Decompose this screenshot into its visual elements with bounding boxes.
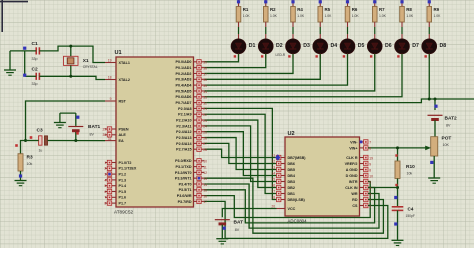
- pin number labels: [103, 59, 374, 209]
- svg-text:WR: WR: [351, 192, 357, 196]
- svg-text:D GND: D GND: [346, 174, 358, 178]
- U1 pin 22 P2.1/A9: [178, 112, 204, 117]
- U1 pin 16 P3.6/WR: [177, 193, 205, 198]
- node RST junction: [24, 139, 27, 142]
- node crystal top junction: [69, 45, 72, 48]
- node POT bottom marker: [430, 161, 433, 164]
- diode D2 (LED): [258, 39, 285, 57]
- svg-text:P0.2/AD2: P0.2/AD2: [176, 72, 192, 76]
- U2 pin 2 RD: [352, 197, 368, 202]
- resistor R1: [236, 0, 250, 22]
- svg-text:1.0K: 1.0K: [324, 14, 332, 18]
- svg-text:1u: 1u: [39, 149, 43, 153]
- svg-text:DB0(LSB): DB0(LSB): [288, 198, 306, 202]
- svg-text:DB3: DB3: [288, 180, 295, 184]
- svg-text:8V: 8V: [446, 124, 451, 128]
- svg-text:30: 30: [103, 133, 107, 137]
- node rail junctions: [428, 98, 431, 101]
- svg-text:P1.3: P1.3: [119, 178, 127, 182]
- U2 pin 18 DB0(LSB): [277, 197, 306, 202]
- svg-text:17: 17: [203, 200, 207, 204]
- svg-text:13: 13: [203, 177, 207, 181]
- svg-text:R6: R6: [352, 7, 358, 12]
- node R10/C4 junction: [396, 186, 399, 189]
- svg-text:INTR: INTR: [349, 180, 358, 184]
- node P1.2 pin marker: [108, 173, 111, 176]
- svg-text:10k: 10k: [27, 162, 33, 166]
- wire C1 left to ground: [10, 50, 36, 52]
- U2 pin 3 WR: [351, 191, 368, 196]
- wire C4 to ground: [397, 210, 399, 240]
- wire POT to ground: [433, 156, 435, 178]
- svg-text:VCC: VCC: [288, 207, 296, 211]
- wire junction to CLK IN: [368, 187, 398, 189]
- U2 pin 15 DB3: [277, 179, 295, 184]
- node crystal bottom junction: [69, 75, 72, 78]
- svg-text:1.0K: 1.0K: [297, 14, 305, 18]
- svg-text:10: 10: [369, 174, 373, 178]
- U2 pin 5 INTR: [349, 179, 368, 184]
- svg-text:C1: C1: [32, 41, 38, 47]
- resistor R3: [18, 154, 33, 171]
- resistor R10: [395, 161, 415, 179]
- svg-text:13: 13: [271, 166, 275, 170]
- svg-text:16: 16: [271, 184, 275, 188]
- svg-text:1: 1: [369, 204, 371, 208]
- svg-text:9: 9: [369, 162, 371, 166]
- svg-text:37: 37: [203, 72, 207, 76]
- node D5 cathode marker: [347, 54, 349, 59]
- svg-text:10: 10: [203, 160, 207, 164]
- svg-text:P3.4/T0: P3.4/T0: [179, 182, 192, 186]
- svg-text:3: 3: [369, 192, 371, 196]
- capacitor C1: [32, 41, 40, 61]
- svg-text:A GND: A GND: [346, 168, 358, 172]
- svg-text:DB5: DB5: [288, 168, 295, 172]
- ground (BAT): [216, 238, 228, 240]
- svg-text:P2.6/A14: P2.6/A14: [176, 142, 192, 146]
- node VIN- pin marker: [360, 141, 363, 144]
- U1 pin 23 P2.2/A10: [176, 118, 204, 123]
- diode D7 (LED): [395, 39, 419, 54]
- U1 pin 13 P3.3/INT1: [175, 176, 205, 181]
- diode D3 (LED): [286, 39, 310, 54]
- svg-text:P3.6/WR: P3.6/WR: [177, 194, 192, 198]
- U1 pin 32 P0.7/AD7: [176, 100, 205, 105]
- node D8 cathode marker: [428, 54, 430, 59]
- svg-text:17: 17: [271, 190, 275, 194]
- U1 pin 21 P2.0/A8: [178, 106, 204, 111]
- svg-text:P0.3/AD3: P0.3/AD3: [176, 78, 192, 82]
- svg-text:8V: 8V: [90, 133, 95, 137]
- svg-text:C2: C2: [32, 67, 38, 73]
- wire C1 to XTAL1: [39, 46, 105, 62]
- svg-text:VREF/2: VREF/2: [345, 162, 358, 166]
- wire P0.0 to D1: [205, 54, 239, 62]
- U1 pin 2 P1.1/T2EX: [105, 166, 137, 171]
- svg-text:19: 19: [369, 156, 373, 160]
- svg-text:P1.5: P1.5: [119, 190, 127, 194]
- svg-text:16: 16: [203, 194, 207, 198]
- wire P3.3 to RD: [205, 178, 384, 233]
- svg-text:4: 4: [369, 186, 371, 190]
- svg-text:C4: C4: [408, 206, 414, 211]
- svg-text:R10: R10: [406, 164, 415, 170]
- svg-text:P0.4/AD4: P0.4/AD4: [176, 84, 193, 88]
- svg-text:10k: 10k: [407, 172, 413, 176]
- wire P2.2 to DB2: [205, 120, 277, 187]
- sheet border corner: [1, 0, 3, 32]
- U2 pin 20 VCC: [277, 207, 296, 211]
- svg-text:DB7(MSB): DB7(MSB): [288, 156, 307, 160]
- svg-text:1: 1: [104, 161, 106, 165]
- svg-text:R2: R2: [270, 7, 276, 12]
- resistor R4: [291, 0, 305, 22]
- node C1/C2 junction markers: [23, 47, 26, 50]
- svg-text:18: 18: [108, 76, 112, 80]
- battery BAT: [215, 220, 243, 239]
- U1 pin 11 P3.1/TXD: [176, 164, 205, 169]
- svg-text:38: 38: [203, 66, 207, 70]
- wire P0.4 to D5: [205, 54, 348, 85]
- svg-text:22: 22: [203, 113, 207, 117]
- svg-text:D2: D2: [276, 43, 283, 49]
- wire junction to R3: [21, 141, 26, 154]
- U1 pin 5 P1.4: [105, 184, 127, 189]
- U1 pin 36 P0.3/AD3: [176, 77, 205, 82]
- svg-text:BAT1: BAT1: [88, 124, 101, 130]
- diode D6 (LED): [367, 39, 391, 54]
- U2 pin 8 A GND: [346, 167, 368, 172]
- U2 pin 6 VIN+: [349, 146, 368, 151]
- svg-text:P2.1/A9: P2.1/A9: [178, 113, 191, 117]
- wire rail to BAT2: [434, 99, 436, 110]
- svg-text:32: 32: [203, 101, 207, 105]
- crystal X1: [64, 56, 98, 69]
- svg-text:P3.0/RXD: P3.0/RXD: [175, 159, 192, 163]
- capacitor C4: [392, 206, 415, 218]
- resistor R6: [345, 0, 359, 22]
- svg-text:P3.2/INT0: P3.2/INT0: [175, 171, 192, 175]
- node R10 bottom marker: [395, 184, 397, 186]
- U2 pin 11 DB7(MSB): [277, 155, 307, 160]
- svg-text:5: 5: [369, 180, 371, 184]
- svg-text:R4: R4: [297, 7, 303, 12]
- svg-text:P2.7/A15: P2.7/A15: [176, 148, 191, 152]
- svg-text:19: 19: [108, 59, 112, 63]
- svg-text:6: 6: [369, 147, 371, 151]
- svg-text:R8: R8: [406, 7, 412, 12]
- U1 pin 28 P2.7/A15: [176, 147, 204, 152]
- U2 pin 14 DB4: [277, 173, 296, 178]
- U1 pin 25 P2.4/A12: [176, 130, 204, 135]
- ground (POT): [428, 177, 440, 179]
- svg-text:11: 11: [203, 165, 207, 169]
- resistor R5: [318, 0, 332, 22]
- U1 pin 26 P2.5/A13: [176, 135, 204, 140]
- node D1 cathode marker: [238, 54, 240, 59]
- U1 pin 33 P0.6/AD6: [176, 95, 205, 100]
- U1 pin 35 P0.4/AD4: [176, 83, 205, 88]
- svg-text:PSEN: PSEN: [119, 127, 129, 131]
- node D3 cathode marker: [292, 54, 294, 59]
- wire C2 left vertical: [25, 51, 37, 76]
- svg-text:8: 8: [369, 168, 371, 172]
- wire VIN+ to POT wiper: [368, 147, 426, 149]
- svg-text:12: 12: [203, 171, 207, 175]
- U1 pin 7 P1.6: [105, 195, 126, 200]
- svg-text:27: 27: [203, 142, 207, 146]
- wire R6 to D5: [347, 22, 349, 27]
- node D6 cathode marker: [374, 54, 376, 59]
- capacitor C3: [37, 128, 48, 153]
- ground (R3): [15, 180, 27, 182]
- svg-text:8: 8: [104, 202, 106, 206]
- op-amp U1: [116, 57, 194, 207]
- svg-text:33p: 33p: [32, 57, 38, 61]
- ground (BAT1): [54, 113, 66, 128]
- svg-text:P0.6/AD6: P0.6/AD6: [176, 95, 192, 99]
- svg-text:15: 15: [203, 189, 207, 193]
- U1 pin 3 P1.2: [105, 172, 126, 177]
- wire R4 to D3: [292, 22, 294, 27]
- node DB7 pin marker: [275, 154, 280, 160]
- svg-text:6: 6: [104, 190, 106, 194]
- svg-text:P0.5/AD5: P0.5/AD5: [176, 89, 192, 93]
- svg-text:P0.7/AD7: P0.7/AD7: [176, 101, 192, 105]
- svg-text:14: 14: [271, 172, 275, 176]
- ground (crystal): [4, 51, 16, 75]
- U1 pin 18 XTAL2: [105, 78, 130, 82]
- wire P3.6 to INTR: [205, 182, 371, 218]
- diode D8 (LED): [422, 39, 446, 54]
- svg-text:P3.1/TXD: P3.1/TXD: [176, 165, 192, 169]
- diode D4 (LED): [313, 39, 337, 54]
- svg-text:D4: D4: [331, 43, 338, 49]
- svg-text:29: 29: [103, 127, 107, 131]
- wire P2.4 to DB4: [205, 132, 277, 176]
- svg-text:7: 7: [104, 196, 106, 200]
- U1 pin 8 P1.7: [105, 201, 126, 206]
- wire P2.3 to DB3: [205, 126, 277, 182]
- svg-text:R9: R9: [433, 7, 439, 12]
- svg-text:1.0K: 1.0K: [379, 14, 387, 18]
- svg-text:33: 33: [203, 96, 207, 100]
- svg-text:31: 31: [108, 137, 112, 141]
- svg-text:P1.2: P1.2: [119, 173, 127, 177]
- svg-text:12: 12: [271, 160, 275, 164]
- svg-text:14: 14: [203, 183, 207, 187]
- wire P0.1 to D2: [205, 54, 266, 68]
- resistor R2: [263, 0, 277, 22]
- wire P0.6 to D7: [205, 54, 403, 97]
- wire C3 row: [26, 140, 39, 142]
- wire BAT1 to ground: [60, 112, 76, 114]
- node C4 top marker: [394, 196, 397, 199]
- svg-text:P2.4/A12: P2.4/A12: [176, 130, 191, 134]
- node R3 bottom marker: [19, 174, 22, 177]
- svg-text:P1.7: P1.7: [119, 202, 127, 206]
- svg-text:VIN+: VIN+: [349, 146, 357, 150]
- svg-text:36: 36: [203, 78, 207, 82]
- wire P0.5 to D6: [205, 54, 375, 91]
- node D7 cathode marker: [401, 54, 403, 59]
- svg-text:28: 28: [203, 148, 207, 152]
- svg-text:20: 20: [271, 205, 275, 209]
- svg-text:EA: EA: [119, 139, 124, 143]
- svg-text:2: 2: [369, 198, 371, 202]
- svg-text:C3: C3: [37, 128, 43, 134]
- svg-text:RST: RST: [119, 99, 127, 103]
- svg-text:1.0K: 1.0K: [352, 14, 360, 18]
- svg-text:11: 11: [272, 154, 276, 158]
- wire R8 to D7: [401, 22, 403, 27]
- node BAT1 top marker: [76, 116, 79, 119]
- U1 pin 14 P3.4/T0: [179, 182, 205, 187]
- capacitor C2: [32, 67, 40, 87]
- U1 pin 30 ALE: [105, 133, 126, 138]
- wire crystal bottom: [70, 65, 72, 76]
- svg-text:R7: R7: [379, 7, 385, 12]
- wire BAT to VCC pin 20: [222, 209, 276, 218]
- svg-text:DB6: DB6: [288, 162, 295, 166]
- svg-text:LED-R: LED-R: [276, 53, 286, 57]
- ground (C4): [392, 239, 404, 241]
- svg-text:1.0K: 1.0K: [243, 14, 251, 18]
- wire R2 to D2: [265, 22, 267, 27]
- resistor R9: [427, 0, 441, 22]
- U2 pin 19 CLK R: [346, 155, 368, 160]
- svg-text:150pF: 150pF: [406, 214, 415, 218]
- svg-text:25: 25: [203, 131, 207, 135]
- svg-text:24: 24: [203, 125, 207, 129]
- node R10 top marker: [395, 154, 397, 156]
- U1 pin 29 PSEN: [105, 127, 129, 132]
- svg-text:34: 34: [203, 90, 207, 94]
- wire P3.7 to CS: [205, 201, 388, 238]
- U1 pin 4 P1.3: [105, 178, 126, 183]
- wire P3.4 to WR: [205, 184, 380, 228]
- U2 pin 4 CLK IN: [345, 185, 368, 190]
- svg-text:CRYSTAL: CRYSTAL: [83, 65, 98, 69]
- svg-text:DB2: DB2: [288, 186, 295, 190]
- svg-text:P1.4: P1.4: [119, 184, 128, 188]
- U1 pin 39 P0.0/AD0: [176, 60, 205, 65]
- svg-text:D7: D7: [412, 43, 419, 49]
- U1 pin 31 EA: [105, 139, 124, 143]
- U1 pin 27 P2.6/A14: [176, 141, 204, 146]
- svg-text:CLK R: CLK R: [346, 156, 358, 160]
- svg-text:AT89C52: AT89C52: [114, 210, 134, 215]
- U2 pin 10 D GND: [346, 173, 368, 178]
- svg-text:35: 35: [203, 84, 207, 88]
- U1 pin 6 P1.5: [105, 189, 126, 194]
- svg-text:P1.6: P1.6: [119, 196, 127, 200]
- U1 pin 24 P2.3/A11: [176, 124, 204, 129]
- op-amp U2: [285, 137, 360, 216]
- svg-text:9: 9: [110, 97, 112, 101]
- svg-text:4: 4: [104, 178, 106, 182]
- svg-text:DB4: DB4: [288, 174, 296, 178]
- U1 pin 1 P1.0/T2: [105, 160, 131, 165]
- svg-text:XTAL2: XTAL2: [119, 78, 130, 82]
- svg-text:33p: 33p: [32, 82, 38, 86]
- svg-text:BAT2: BAT2: [445, 116, 458, 122]
- wire R5 to D4: [319, 22, 321, 27]
- resistor R7: [372, 0, 386, 22]
- svg-text:P1.0/T2: P1.0/T2: [119, 161, 132, 165]
- U2 pin 1 CS: [352, 203, 368, 208]
- diode D1 (LED): [231, 39, 255, 54]
- svg-text:P0.0/AD0: P0.0/AD0: [176, 60, 192, 64]
- svg-text:8V: 8V: [235, 228, 240, 232]
- svg-text:P1.1/T2EX: P1.1/T2EX: [119, 167, 137, 171]
- node BAT2 top marker: [434, 105, 437, 108]
- resistor R8: [400, 0, 414, 22]
- wire crystal top: [70, 46, 72, 56]
- svg-text:P2.2/A10: P2.2/A10: [176, 118, 191, 122]
- svg-text:D3: D3: [303, 43, 310, 49]
- svg-text:D6: D6: [385, 43, 392, 49]
- wire P3.5 to CLK IN: [205, 188, 375, 223]
- wire P0.3 to D4: [205, 54, 321, 79]
- svg-text:1.0K: 1.0K: [270, 14, 278, 18]
- U2 pin 7 VIN-: [350, 140, 368, 145]
- wire P0.2 to D3: [205, 54, 294, 74]
- U1 pin 12 P3.2/INT0: [175, 170, 205, 175]
- svg-text:1.0K: 1.0K: [406, 14, 414, 18]
- U2 pin 16 DB2: [277, 185, 295, 190]
- U2 pin 13 DB5: [277, 167, 295, 172]
- svg-text:DB1: DB1: [288, 192, 295, 196]
- svg-text:R1: R1: [243, 7, 249, 12]
- node R10 top junction: [396, 146, 399, 149]
- wire P0.7 to D8 and VCC rail: [205, 99, 474, 103]
- svg-text:R5: R5: [324, 7, 330, 12]
- U1 pin 34 P0.5/AD5: [176, 89, 205, 94]
- svg-text:D8: D8: [440, 43, 447, 49]
- node BAT1 bottom junction: [74, 139, 77, 142]
- svg-text:P0.1/AD1: P0.1/AD1: [176, 66, 192, 70]
- U1 pin 37 P0.2/AD2: [176, 71, 205, 76]
- node C4 bottom marker: [394, 222, 397, 225]
- wire C2 to XTAL2: [39, 76, 105, 79]
- svg-text:18: 18: [271, 196, 275, 200]
- U2 pin 17 DB1: [277, 191, 295, 196]
- svg-text:CS: CS: [352, 204, 358, 208]
- wire P2.5 to DB5: [205, 138, 277, 170]
- svg-text:BAT: BAT: [234, 220, 244, 226]
- svg-text:U1: U1: [115, 50, 122, 56]
- svg-text:R3: R3: [27, 155, 33, 161]
- node BAT lower marker: [223, 227, 226, 230]
- svg-text:D1: D1: [249, 43, 256, 49]
- battery BAT2: [428, 115, 458, 136]
- svg-text:XTAL1: XTAL1: [119, 61, 130, 65]
- svg-text:P3.3/INT1: P3.3/INT1: [175, 177, 192, 181]
- U2 pin 9 VREF/2: [345, 161, 368, 166]
- svg-text:ALE: ALE: [119, 133, 127, 137]
- wire P2.7 to DB7: [205, 149, 277, 157]
- svg-text:21: 21: [203, 107, 207, 111]
- svg-text:P2.5/A13: P2.5/A13: [176, 136, 191, 140]
- svg-text:10K: 10K: [443, 143, 450, 147]
- wire RST net: [26, 101, 106, 141]
- diode D5 (LED): [340, 39, 364, 54]
- U1 pin 9 RST: [105, 99, 127, 103]
- U1 pin 15 P3.5/T1: [179, 188, 205, 193]
- svg-text:5: 5: [104, 184, 106, 188]
